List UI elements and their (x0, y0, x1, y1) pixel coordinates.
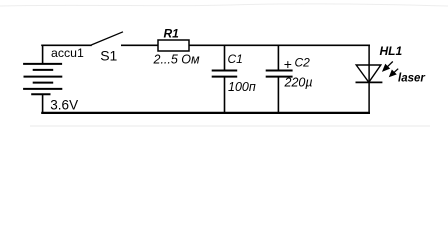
svg-text:3.6V: 3.6V (50, 97, 78, 112)
svg-text:100п: 100п (228, 80, 256, 94)
svg-text:220µ: 220µ (284, 75, 313, 89)
svg-text:C2: C2 (295, 56, 311, 70)
svg-text:HL1: HL1 (380, 44, 403, 58)
svg-text:laser: laser (398, 73, 425, 85)
svg-text:R1: R1 (164, 26, 180, 40)
svg-text:2...5 Ом: 2...5 Ом (153, 53, 201, 67)
svg-text:S1: S1 (100, 47, 117, 63)
svg-text:+: + (284, 56, 292, 72)
svg-text:accu1: accu1 (51, 46, 84, 60)
svg-text:C1: C1 (228, 52, 243, 66)
